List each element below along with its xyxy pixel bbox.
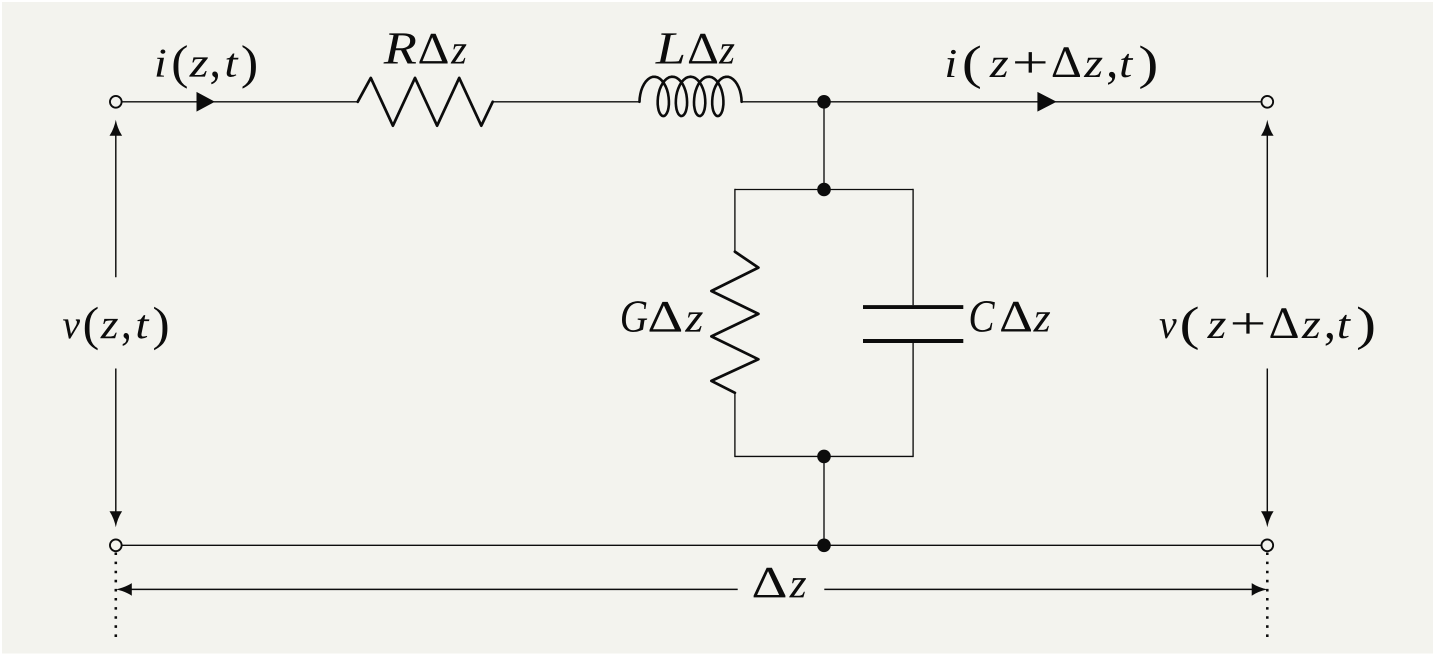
bottom rail wire [122, 544, 1260, 546]
capacitor C dz top plate [863, 305, 963, 309]
box right rail upper [912, 189, 914, 305]
v(z,t) arrow shaft upper [115, 134, 117, 278]
v(z,t) arrow shaft lower [115, 369, 117, 513]
wire box bottom to bottom rail [823, 456, 825, 545]
wire between resistor and inductor [493, 101, 640, 103]
box left rail lower [734, 392, 736, 457]
inductor L dz (series coil) [640, 77, 742, 116]
resistor G dz (shunt zigzag) [711, 252, 758, 393]
label i(z+dz,t) [947, 45, 1156, 89]
box top edge [735, 189, 913, 191]
terminal bottom-right (open circle) [1261, 539, 1273, 551]
dz arrowhead right [1252, 583, 1268, 596]
dz arrowhead left [116, 583, 132, 596]
label v(z+dz,t) [1160, 306, 1374, 350]
dz dimension line left segment [130, 588, 738, 590]
label v(z,t) [63, 307, 167, 351]
dotted extension below right terminal [1266, 553, 1269, 640]
current arrow for i(z,t) [197, 92, 215, 112]
wire inductor to right terminal [741, 101, 1260, 103]
junction dot top node [817, 95, 831, 109]
box bottom edge [735, 455, 913, 457]
v(z,t) arrowhead up [110, 120, 123, 136]
box right rail lower [912, 343, 914, 457]
box left rail upper [734, 189, 736, 252]
junction dot box top node [817, 183, 831, 197]
dz dimension line right segment [824, 588, 1253, 590]
label L dz [655, 33, 734, 63]
dotted extension below left terminal [115, 553, 118, 642]
terminal top-right (open circle) [1261, 96, 1273, 108]
junction dot bottom rail node [817, 539, 831, 553]
v(z,t) arrowhead down [110, 511, 123, 527]
capacitor C dz bottom plate [863, 339, 963, 343]
label i(z,t) [157, 45, 256, 89]
terminal bottom-left (open circle) [110, 539, 122, 551]
wire node to box top [823, 102, 825, 190]
label C dz [971, 301, 1050, 332]
label dz (dimension) [754, 568, 806, 598]
v(z+dz,t) arrow shaft upper [1266, 134, 1268, 278]
v(z+dz,t) arrowhead down [1261, 511, 1274, 527]
v(z+dz,t) arrow shaft lower [1266, 369, 1268, 513]
label R dz [383, 33, 466, 63]
current arrow for i(z+dz,t) [1037, 92, 1056, 112]
resistor R dz (series zigzag) [358, 78, 493, 126]
label G dz [622, 301, 703, 332]
v(z+dz,t) arrowhead up [1261, 120, 1274, 136]
wire top-left segment [122, 101, 358, 103]
terminal top-left (open circle) [110, 96, 122, 108]
junction dot box bottom node [817, 450, 831, 464]
